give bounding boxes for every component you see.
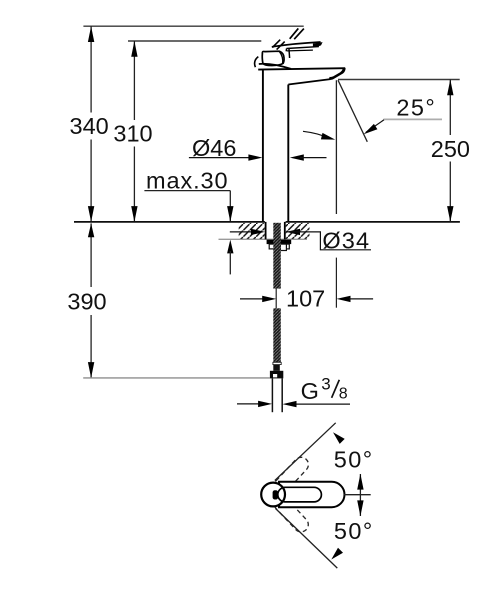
lever blade tip	[313, 42, 323, 47]
lever blade top edge	[272, 42, 321, 47]
faucet column left edge	[262, 69, 264, 222]
faucet base flange hatch right	[286, 223, 310, 239]
lever back stroke 1	[272, 40, 280, 48]
svg-text:25°: 25°	[396, 94, 436, 120]
top view: swivel arrow down	[357, 500, 363, 516]
G3/8 arrow left	[283, 401, 297, 407]
lever knuckle inner curve	[279, 51, 283, 63]
G3/8 arrow right	[258, 401, 272, 407]
rod centerline at 107 dim	[275, 289, 277, 309]
top view: 50 degree line up	[275, 423, 336, 481]
spout underside	[288, 79, 330, 84]
svg-text:50°: 50°	[334, 446, 374, 472]
svg-text:340: 340	[70, 113, 109, 139]
dimension 107 right extension line	[335, 258, 337, 308]
dimension Ø34 arrow left	[286, 229, 300, 235]
svg-text:Ø34: Ø34	[322, 227, 370, 253]
svg-text:107: 107	[286, 286, 325, 312]
dimension 340 arrow down	[88, 206, 94, 222]
svg-text:390: 390	[67, 289, 106, 315]
faucet shank right edge	[284, 222, 286, 239]
dimension 340 arrow up	[88, 26, 94, 42]
G3/8 underline	[287, 403, 350, 405]
hose adapter notch	[273, 374, 277, 377]
max.30 lower tail	[229, 251, 231, 274]
dimension 310 extension line	[128, 40, 261, 42]
svg-text:50°: 50°	[334, 518, 374, 544]
max.30 leader underline	[144, 190, 230, 192]
top view: centerline	[344, 494, 371, 496]
dimension 310 line	[133, 41, 135, 222]
max.30 arrow down (to countertop)	[227, 206, 233, 222]
dimension 390 arrow down	[88, 362, 94, 378]
faucet top line	[258, 68, 345, 69]
top view: dashed handle rotated down	[271, 493, 311, 535]
dimension 107 arrow left	[337, 296, 351, 302]
25 degree leader diagonal	[366, 120, 384, 133]
dimension 250 arrow down	[447, 206, 453, 222]
dimension Ø34 arrow right	[251, 229, 265, 235]
mounting washer tab	[280, 244, 286, 250]
countertop line	[74, 221, 460, 223]
max.30 arrow up (to deck underside)	[227, 240, 233, 254]
svg-text:310: 310	[113, 121, 152, 147]
svg-text:8: 8	[339, 386, 348, 403]
Ø46 underline / left tail	[189, 157, 253, 159]
dimension 250 arrow up	[447, 80, 453, 96]
top view: swivel arrow up	[357, 474, 363, 490]
lever knuckle	[262, 51, 284, 65]
outlet direction arrowhead	[321, 133, 335, 140]
top view: lever index bar	[273, 490, 279, 499]
Ø46 right tail	[300, 157, 327, 159]
svg-text:3: 3	[321, 375, 330, 394]
spout tip	[329, 68, 346, 80]
lever raised position tick 1	[290, 28, 299, 38]
dimension 340 extension line (top)	[83, 25, 303, 27]
mounting nut body	[269, 244, 289, 249]
lever blade underside	[287, 47, 319, 49]
dimension 250 extension line	[338, 79, 460, 81]
top view: handle inner capsule	[278, 487, 322, 502]
top view: body circle	[261, 483, 285, 507]
dimension 107 left tail	[240, 298, 264, 300]
svg-text:250: 250	[431, 136, 470, 162]
lever back stroke 2	[277, 42, 285, 50]
dimension 390 arrow up	[88, 223, 94, 237]
lever front face	[288, 49, 291, 58]
top view: handle outer capsule	[279, 482, 345, 507]
lever blade lower lip	[287, 49, 313, 52]
dimension 340 line	[90, 26, 92, 222]
dimension 310 arrow up	[131, 41, 137, 57]
25 degree leader arrowhead	[364, 124, 378, 134]
lever raised position tick 2	[294, 29, 304, 40]
mounting nut black collar	[267, 240, 292, 245]
25 degree leader underline	[384, 118, 443, 120]
svg-text:G: G	[301, 378, 319, 404]
top view: arrowhead lower	[331, 548, 343, 560]
Ø46 arrow right	[248, 154, 262, 160]
water stream vertical line	[335, 80, 337, 214]
hose tube left edge	[271, 378, 273, 412]
lever front drop	[285, 49, 287, 52]
hose end reference line	[83, 377, 270, 379]
G3/8 arrow left tail	[237, 403, 262, 405]
faucet shank left edge	[265, 222, 267, 239]
countertop underside line	[219, 238, 308, 240]
svg-text:max.30: max.30	[146, 168, 228, 194]
hose tube right edge	[281, 378, 283, 412]
max.30 leader vertical	[229, 191, 231, 222]
dimension 310 arrow down	[131, 206, 137, 222]
outlet direction leader	[303, 131, 327, 137]
dimension Ø34 left tail	[230, 231, 254, 233]
faucet column right edge	[287, 85, 289, 222]
top view: arrowhead upper	[333, 432, 345, 444]
threaded rod lower	[273, 308, 281, 362]
dimension Ø34 leader to label	[286, 232, 371, 250]
dimension 250 line	[449, 80, 451, 222]
Ø46 arrow left	[290, 154, 304, 160]
hose adapter block	[270, 371, 283, 379]
water stream 25 degree line	[338, 80, 367, 142]
dimension 107 arrow right	[262, 296, 276, 302]
top view: dashed handle rotated up	[271, 454, 311, 496]
faucet base flange hatch left	[239, 223, 265, 239]
dimension 390 line	[90, 223, 92, 378]
lever arc (left)	[255, 57, 259, 68]
top view: 50 degree line down	[276, 509, 338, 569]
top view: swivel arrow line	[359, 474, 361, 516]
threaded rod upper	[273, 223, 281, 289]
rod end white band	[273, 362, 281, 364]
faucet cap dome	[259, 64, 291, 69]
dimension 107 right tail	[349, 298, 373, 300]
rod end stem	[273, 365, 280, 371]
